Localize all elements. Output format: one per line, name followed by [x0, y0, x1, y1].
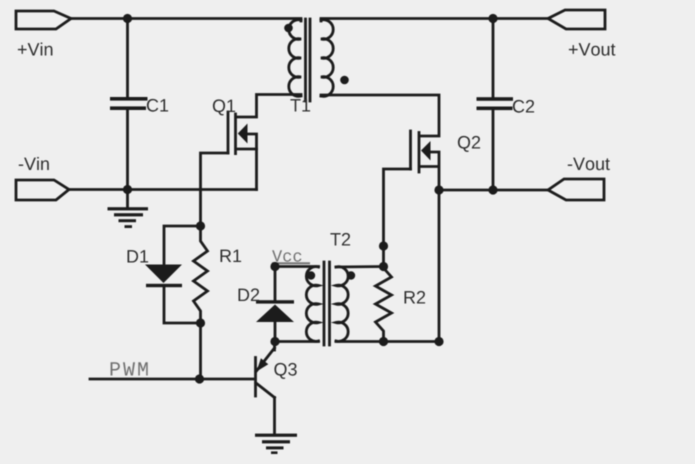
terminal +Vout [548, 10, 605, 29]
label D1 [128, 250, 149, 262]
node phase dot T1 secondary [340, 76, 349, 85]
capacitor C2 [477, 19, 514, 191]
wire Q2 source down to rail [430, 152, 439, 190]
node junction on PWM line [195, 374, 204, 383]
node junction bottom right corner [434, 337, 443, 346]
wire Q2 gate down to T2 secondary [384, 169, 411, 267]
wire PWM input line [90, 378, 253, 381]
label T2 [330, 233, 350, 246]
label R2 [405, 291, 426, 304]
label C1 [147, 99, 168, 112]
terminal -Vin [16, 180, 69, 200]
terminal -Vout [548, 179, 604, 200]
label -Vout [568, 158, 610, 171]
wire Vcc node to T2 primary top [275, 265, 319, 268]
capacitor C1 [110, 19, 148, 190]
wire Q1 gate to node A [201, 153, 229, 226]
wire Q2 source continues down to T2 bottom [438, 190, 441, 342]
label R1 [221, 250, 242, 262]
diode D2 [256, 267, 294, 342]
node junction Vcc [270, 262, 279, 271]
label C2 [513, 100, 534, 113]
ground (left, under input) [108, 190, 149, 229]
node phase dot T1 primary [284, 24, 293, 33]
label PWM [111, 362, 148, 375]
wire T2 primary bottom lead [275, 340, 319, 343]
label T1 [290, 99, 310, 111]
terminal +Vin [16, 11, 71, 29]
node A junction Q1 gate / D1 / R1 [196, 221, 205, 230]
node phase dot T2 secondary [347, 271, 355, 279]
label D2 [239, 288, 260, 301]
wire Q1 drain to T1 primary bottom [237, 95, 301, 118]
wire +Vin rail to T1 primary top [71, 19, 301, 22]
mosfet Q1 [228, 112, 257, 154]
transistor Q3 [256, 348, 275, 398]
wire Q3 emitter down to ground [273, 398, 276, 434]
node extra junction on gate line [379, 241, 388, 250]
node junction Q2 source on rail [434, 185, 443, 194]
wire node to PWM line [199, 323, 202, 379]
node junction T2 secondary top / R2 [379, 262, 388, 271]
resistor R1 [194, 226, 208, 323]
transformer T1 [289, 19, 333, 101]
label Q3 [274, 363, 296, 379]
label Vcc [272, 250, 310, 264]
node junction +Vin/C1 [123, 14, 132, 23]
wire Q3 collector up to D2 node [273, 342, 276, 351]
wire -Vin rail [69, 188, 257, 191]
wire T2 secondary top lead [336, 265, 384, 268]
node junction C2 on rail [488, 185, 497, 194]
wire -Vout rail [439, 189, 549, 192]
resistor R2 [376, 267, 392, 342]
wire T1 secondary top to +Vout [321, 19, 549, 22]
label +Vout [569, 43, 616, 56]
wire T2 secondary bottom lead [336, 340, 439, 343]
mosfet Q2 [411, 131, 439, 172]
diode D1 [145, 226, 201, 323]
ground (under Q3) [255, 434, 297, 454]
node junction +Vout/C2 [488, 14, 497, 23]
node phase dot T2 primary [307, 271, 315, 279]
label -Vin [19, 157, 49, 170]
transformer T2 [306, 262, 348, 345]
wire T1 secondary bottom to Q2 drain [321, 95, 439, 136]
node junction D1/R1 bottom [196, 318, 205, 327]
label +Vin [18, 43, 53, 56]
wire Q1 source down to -Vin rail [247, 134, 257, 190]
label Q1 [213, 99, 235, 115]
node junction D2 anode / T2 / Q3 collector [270, 337, 279, 346]
node junction -Vin/C1/ground [123, 185, 132, 194]
label Q2 [458, 136, 480, 152]
node junction R2 bottom [379, 337, 388, 346]
